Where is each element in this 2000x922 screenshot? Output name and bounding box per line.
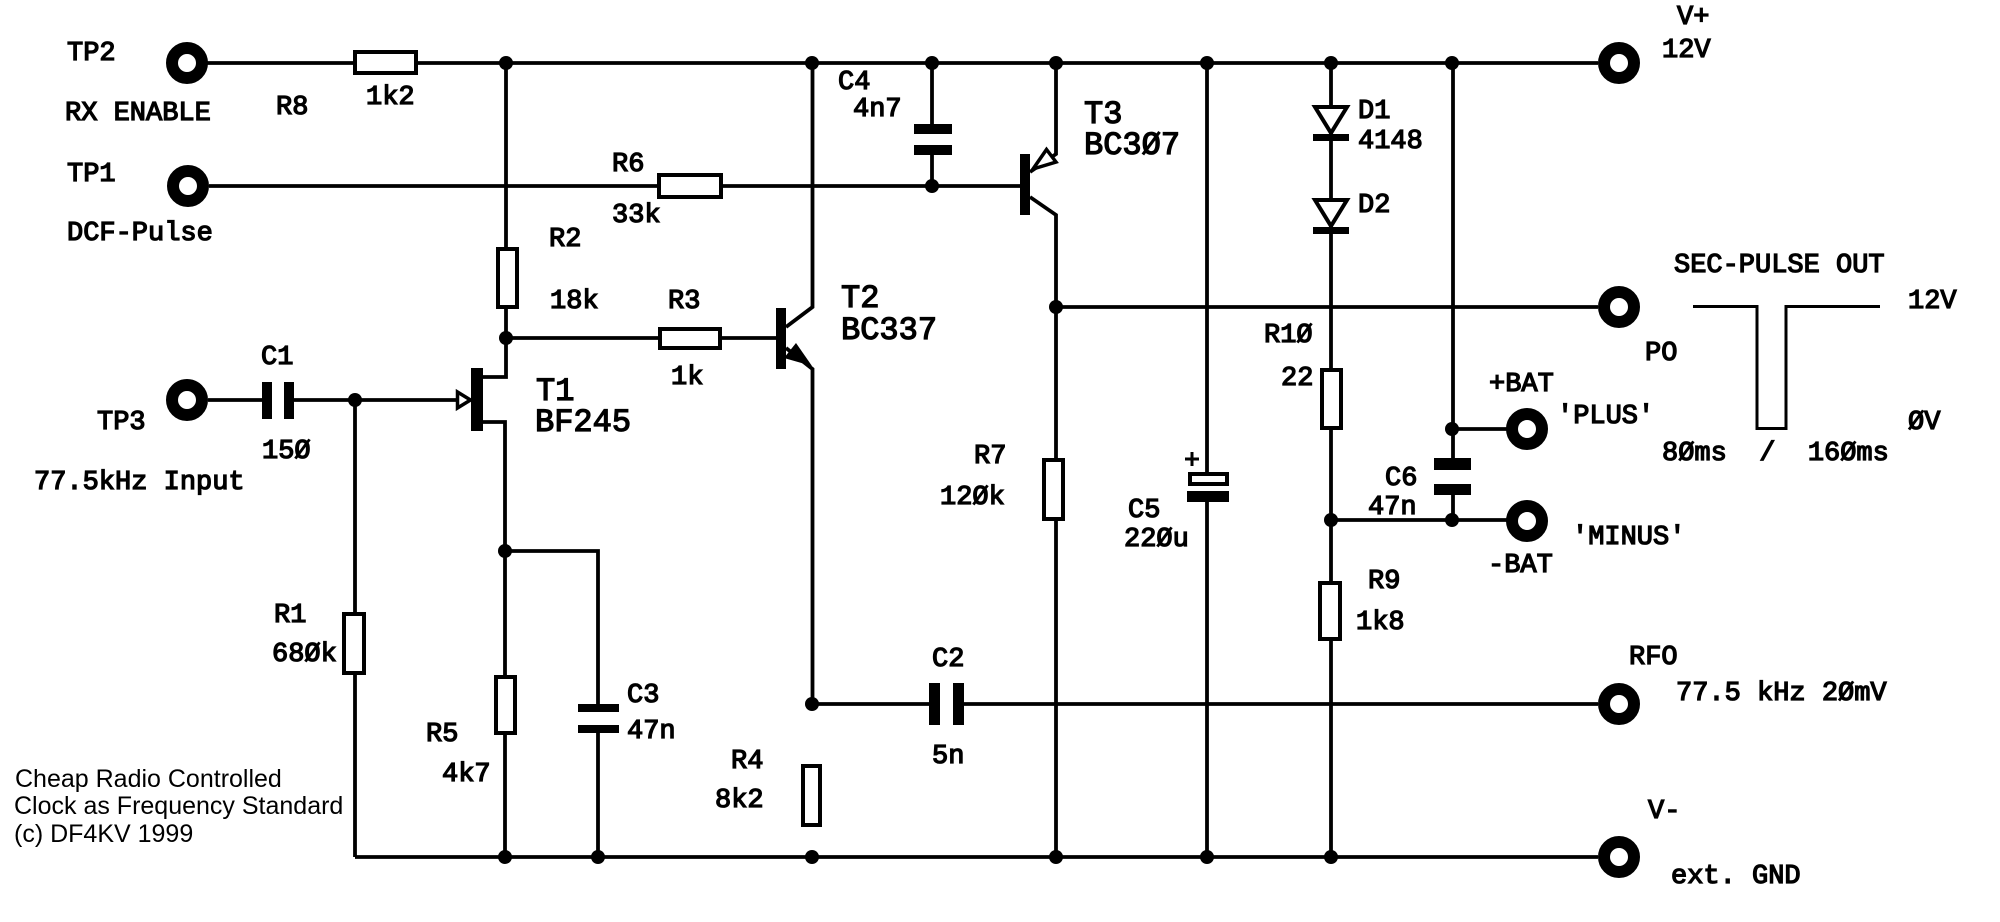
svg-text:77.5 kHz 2ØmV: 77.5 kHz 2ØmV — [1676, 679, 1887, 709]
svg-text:+BAT: +BAT — [1489, 370, 1554, 400]
svg-text:C5: C5 — [1128, 496, 1160, 526]
svg-text:1k: 1k — [671, 363, 703, 393]
svg-text:'MINUS': 'MINUS' — [1572, 523, 1685, 553]
svg-text:D1: D1 — [1358, 97, 1390, 127]
svg-text:68Øk: 68Øk — [272, 640, 337, 670]
svg-text:12V: 12V — [1908, 287, 1957, 317]
svg-text:12V: 12V — [1662, 36, 1711, 66]
svg-text:DCF-Pulse: DCF-Pulse — [67, 219, 213, 249]
svg-text:C1: C1 — [261, 343, 293, 373]
svg-text:R9: R9 — [1368, 567, 1400, 597]
svg-text:15Ø: 15Ø — [262, 437, 311, 467]
svg-text:R4: R4 — [731, 747, 763, 777]
svg-text:R5: R5 — [426, 720, 458, 750]
svg-text:22: 22 — [1281, 364, 1313, 394]
svg-text:47n: 47n — [627, 717, 676, 747]
svg-text:12Øk: 12Øk — [940, 483, 1005, 513]
svg-text:BF245: BF245 — [535, 404, 631, 441]
svg-text:8k2: 8k2 — [715, 786, 764, 816]
svg-text:D2: D2 — [1358, 191, 1390, 221]
svg-text:V+: V+ — [1677, 3, 1709, 33]
svg-text:V-: V- — [1648, 797, 1680, 827]
svg-text:SEC-PULSE OUT: SEC-PULSE OUT — [1674, 251, 1885, 281]
svg-text:BC337: BC337 — [841, 312, 937, 349]
svg-text:33k: 33k — [612, 201, 661, 231]
svg-text:TP2: TP2 — [67, 39, 116, 69]
svg-text:-BAT: -BAT — [1488, 551, 1553, 581]
svg-text:R3: R3 — [668, 287, 700, 317]
svg-text:8Øms / 16Øms: 8Øms / 16Øms — [1662, 439, 1889, 469]
svg-text:RFO: RFO — [1629, 643, 1678, 673]
svg-text:47n: 47n — [1368, 493, 1417, 523]
svg-text:TP1: TP1 — [67, 160, 116, 190]
svg-text:R8: R8 — [276, 93, 308, 123]
svg-text:R1Ø: R1Ø — [1264, 321, 1313, 351]
svg-text:4k7: 4k7 — [442, 760, 491, 790]
svg-text:BC3Ø7: BC3Ø7 — [1084, 127, 1180, 164]
svg-text:77.5kHz Input: 77.5kHz Input — [34, 468, 245, 498]
svg-text:R1: R1 — [274, 601, 306, 631]
svg-text:ext. GND: ext. GND — [1671, 862, 1801, 892]
svg-text:Cheap Radio Controlled: Cheap Radio Controlled — [15, 765, 282, 793]
svg-text:C2: C2 — [932, 645, 964, 675]
svg-text:PO: PO — [1645, 339, 1677, 369]
svg-text:4148: 4148 — [1358, 127, 1423, 157]
svg-text:C3: C3 — [627, 681, 659, 711]
svg-text:4n7: 4n7 — [853, 95, 902, 125]
svg-text:R2: R2 — [549, 225, 581, 255]
svg-text:5n: 5n — [932, 742, 964, 772]
svg-text:(c) DF4KV 1999: (c) DF4KV 1999 — [14, 820, 193, 848]
svg-text:1k8: 1k8 — [1356, 608, 1405, 638]
svg-text:RX ENABLE: RX ENABLE — [65, 99, 211, 129]
svg-text:'PLUS': 'PLUS' — [1557, 402, 1654, 432]
svg-text:18k: 18k — [550, 287, 599, 317]
svg-text:R6: R6 — [612, 150, 644, 180]
svg-text:TP3: TP3 — [97, 408, 146, 438]
svg-text:Clock as Frequency Standard: Clock as Frequency Standard — [14, 792, 343, 820]
svg-text:C6: C6 — [1385, 464, 1417, 494]
svg-text:1k2: 1k2 — [366, 83, 415, 113]
svg-text:22Øu: 22Øu — [1124, 525, 1189, 555]
svg-text:C4: C4 — [838, 68, 870, 98]
svg-text:R7: R7 — [974, 442, 1006, 472]
svg-text:ØV: ØV — [1908, 408, 1941, 438]
